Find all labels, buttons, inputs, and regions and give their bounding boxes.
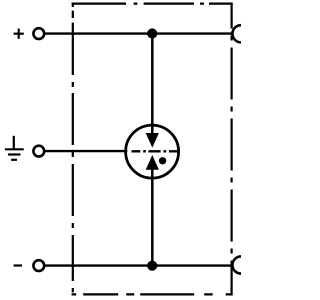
label - polarity sign — [14, 264, 22, 266]
junction dot on top rail — [147, 28, 157, 38]
enclosure dash-dot boundary: top border — [72, 2, 233, 4]
arrester center-electrode dash-dot line — [132, 150, 181, 152]
enclosure dash-dot boundary: bottom border — [72, 293, 233, 295]
earth ground symbol — [5, 136, 24, 160]
gas-filled indicator dot — [159, 157, 166, 164]
wire: middle from ground terminal to arrester — [45, 150, 127, 152]
electrode arrow pointing down — [146, 133, 159, 148]
terminal circle: right top output (clipped at edge) — [232, 25, 249, 42]
terminal circle: right bottom output (clipped at edge) — [232, 256, 249, 273]
terminal circle: - input — [33, 260, 44, 271]
terminal circle: + input — [33, 28, 44, 39]
terminal circle: ground input — [33, 146, 44, 157]
enclosure dash-dot boundary: left border — [72, 3, 74, 296]
electrode arrow pointing up — [146, 155, 159, 170]
junction dot on bottom rail — [147, 261, 157, 271]
wire: bottom rail from - terminal to right terminal — [45, 264, 231, 266]
surge arrester body circle (gas discharge tube) — [126, 125, 179, 178]
enclosure dash-dot boundary: right border — [231, 3, 233, 296]
label + polarity sign — [14, 29, 24, 39]
wire: vertical from arrester to bottom junction — [151, 169, 154, 265]
wire: top rail from + terminal to right terminal — [45, 32, 231, 34]
wire: vertical drop from top junction into arrester — [151, 34, 154, 134]
